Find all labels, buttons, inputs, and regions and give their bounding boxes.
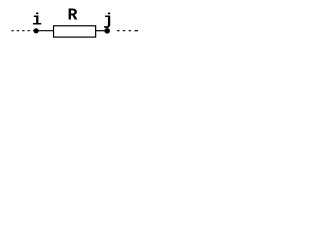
node j junction dot (104, 28, 110, 34)
resistor R box (54, 26, 96, 37)
wire resistor to node j (96, 30, 107, 32)
svg-text:j: j (103, 10, 113, 29)
svg-text:R: R (67, 6, 77, 25)
wire dashed lead right (117, 30, 132, 32)
wire dashed lead right last dash (135, 30, 139, 32)
svg-text:i: i (32, 11, 42, 30)
node i junction dot (34, 28, 39, 33)
wire dashed lead left (11, 30, 34, 32)
wire node i to resistor (36, 30, 54, 32)
